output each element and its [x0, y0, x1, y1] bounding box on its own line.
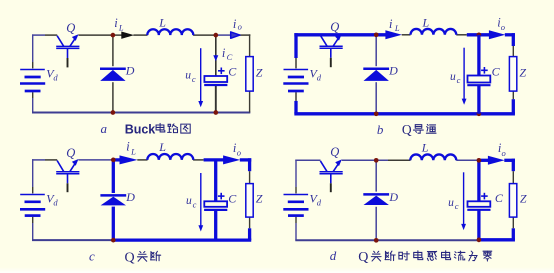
wire: c thick diode branch	[112, 158, 115, 193]
label uc	[186, 195, 197, 209]
node: a capacitor bottom junction	[213, 110, 218, 115]
svg-text:c: c	[457, 75, 461, 85]
svg-text:Z: Z	[520, 192, 527, 206]
label Vd	[46, 67, 58, 83]
wire: c thick right vertical bottom	[248, 228, 251, 240]
wire: c left vertical	[32, 159, 34, 187]
svg-text:a: a	[101, 121, 108, 136]
wire: c top-left segment	[32, 159, 45, 161]
battery Vd	[283, 70, 308, 92]
capacitor C	[467, 193, 490, 210]
svg-text:d: d	[53, 73, 58, 83]
svg-text:D: D	[125, 64, 135, 78]
wire: a arrow to inductor	[133, 34, 147, 36]
wire: b thick right vertical top	[512, 33, 515, 46]
current arrow io (thick blue)	[223, 155, 240, 164]
label io	[497, 16, 505, 33]
current arrow io (hollow)	[231, 32, 240, 38]
wire: d thick segment C junction to io	[477, 159, 488, 162]
wire: c thick capacitor branch	[214, 160, 217, 201]
label uc	[185, 70, 196, 84]
resistor Z (load)	[246, 184, 253, 218]
svg-text:L: L	[158, 15, 166, 29]
node: d C bottom junction	[477, 238, 482, 243]
caption: dian lu tu	[156, 123, 165, 132]
capacitor C	[204, 68, 227, 86]
wire: b battery stub top	[295, 58, 297, 68]
uc voltage arrow	[462, 48, 467, 105]
battery Vd	[20, 70, 45, 92]
wire: a inductor to C-junction	[193, 34, 216, 36]
wire: a diode branch	[112, 35, 114, 66]
wire: b iL arrow to inductor (thin)	[402, 34, 411, 36]
diode D	[100, 195, 126, 205]
wire: b io arrow to top-right corner (thick)	[505, 33, 515, 36]
svg-text:C: C	[228, 65, 237, 79]
svg-text:Z: Z	[256, 192, 263, 206]
svg-text:i: i	[222, 46, 226, 60]
wire: c Q to D-junction	[78, 159, 113, 161]
svg-text:o: o	[238, 22, 242, 32]
wire: b thick right vertical bottom	[512, 99, 515, 114]
svg-text:Q: Q	[330, 20, 339, 34]
transistor Q	[56, 159, 79, 192]
node: b capacitor bottom junction	[477, 111, 482, 116]
wire: a capacitor branch	[215, 35, 217, 76]
resistor Z (load)	[509, 57, 516, 92]
wire: a io arrow to top-right corner	[240, 34, 251, 36]
label io	[498, 141, 506, 158]
svg-text:d: d	[330, 248, 337, 263]
current arrow iL (thick blue)	[385, 30, 402, 39]
wire: b Z stub top	[512, 46, 514, 57]
svg-text:c: c	[455, 201, 459, 211]
wire: c thick right vertical top	[248, 158, 251, 171]
wire: b thick capacitor branch	[477, 35, 480, 76]
wire: d Z stub bottom	[512, 217, 514, 228]
diode D	[363, 69, 389, 81]
svg-text:i: i	[233, 17, 237, 31]
svg-text:d: d	[317, 73, 322, 83]
svg-text:Q: Q	[402, 122, 412, 137]
uc voltage arrow	[461, 172, 466, 230]
node: d diode top junction	[374, 158, 379, 163]
wire: b battery stub bottom	[295, 92, 297, 101]
svg-text:i: i	[389, 16, 393, 31]
caption: dao tong	[413, 125, 423, 134]
svg-text:c: c	[193, 199, 197, 209]
svg-text:d: d	[317, 198, 322, 208]
current arrow iL (thick blue)	[120, 155, 138, 164]
wire: b thick segment to C junction and io	[467, 33, 490, 36]
resistor Z (load)	[246, 57, 253, 92]
caption: guan duan shi dian gan dian liu wei ling	[371, 251, 381, 261]
wire: d Q to D junction	[342, 159, 388, 161]
node: b diode top junction	[374, 32, 379, 37]
node: a switch-diode junction	[111, 33, 116, 38]
wire: a top-left segment	[32, 34, 45, 36]
wire: d thick right vertical top	[512, 159, 515, 172]
svg-text:L: L	[158, 140, 166, 154]
wire: b thick left vertical bottom	[294, 101, 297, 114]
svg-text:Z: Z	[519, 66, 526, 80]
svg-text:L: L	[130, 146, 136, 156]
transistor Q	[320, 34, 343, 67]
resistor Z (load)	[509, 184, 516, 218]
wire: c thick top segment with iL arrow	[112, 158, 120, 161]
wire: c Z stub top	[249, 171, 251, 183]
current arrow iL (black)	[121, 32, 134, 39]
wire: c io arrow to top-right corner (thick)	[240, 158, 251, 161]
label iL	[114, 16, 124, 33]
svg-text:d: d	[53, 198, 58, 208]
current arrow io (thick blue)	[489, 30, 505, 39]
svg-text:Z: Z	[256, 66, 263, 80]
inductor L	[147, 154, 193, 160]
svg-text:D: D	[125, 190, 135, 204]
wire: a left vertical below battery	[32, 92, 34, 98]
inductor L	[410, 154, 456, 160]
diode D	[100, 69, 126, 81]
label iC	[222, 46, 233, 62]
wire: c left vertical below battery	[32, 217, 34, 223]
wire: a bottom rail	[32, 112, 250, 114]
uc voltage arrow	[198, 173, 203, 232]
svg-text:Q: Q	[125, 250, 135, 265]
caption: guan duan	[137, 251, 147, 261]
node: a diode bottom junction	[111, 110, 116, 115]
wire: a left vertical	[32, 34, 34, 62]
wire: d left vertical	[295, 160, 297, 187]
inductor L	[411, 29, 457, 35]
wire: b thick top rail	[294, 33, 385, 36]
svg-text:c: c	[192, 74, 196, 84]
node: c diode bottom junction	[111, 238, 116, 243]
inductor L	[147, 29, 193, 35]
node: d diode bottom junction	[374, 238, 379, 243]
label io	[233, 141, 241, 158]
wire: a C-junction to io arrow	[216, 34, 231, 36]
label iL	[126, 139, 136, 157]
wire: c inductor to thick (thin)	[193, 159, 204, 161]
svg-text:C: C	[492, 65, 501, 79]
svg-text:L: L	[118, 23, 124, 33]
wire: d thick bottom segment	[477, 238, 515, 241]
wire: d thick right vertical bottom	[512, 228, 515, 240]
wire: a Q to D-junction	[78, 34, 121, 36]
svg-text:i: i	[114, 16, 118, 30]
wire: b thick left vertical	[294, 33, 297, 58]
svg-text:L: L	[394, 23, 400, 33]
wire: d io arrow to top-right corner thick	[504, 159, 515, 162]
wire: c arrow to inductor (thin)	[137, 159, 147, 161]
wire: d top rail thin	[295, 159, 320, 161]
battery Vd	[283, 195, 308, 216]
svg-text:u: u	[185, 70, 191, 82]
label Vd	[310, 192, 322, 208]
current arrow iC	[213, 55, 218, 61]
wire: b thick bottom rail	[294, 112, 515, 115]
svg-text:D: D	[388, 64, 398, 78]
transistor Q	[320, 159, 343, 192]
wire: d left vertical below battery	[295, 217, 297, 223]
svg-text:u: u	[448, 197, 454, 209]
label uc	[450, 71, 461, 85]
svg-text:C: C	[495, 191, 504, 205]
wire: d bottom rail thin	[295, 239, 479, 241]
svg-text:o: o	[501, 22, 505, 32]
wire: b Z stub bottom	[512, 91, 514, 99]
svg-text:o: o	[237, 148, 241, 158]
wire: a right vertical (Z branch)	[249, 34, 251, 56]
node: b diode bottom junction	[374, 111, 379, 116]
uc voltage arrow	[198, 48, 203, 107]
svg-text:i: i	[126, 139, 130, 154]
node: d LC top junction	[477, 158, 482, 163]
svg-text:Buck: Buck	[125, 122, 156, 136]
node: a LC junction	[213, 33, 218, 38]
label iL	[389, 16, 400, 33]
wire: c thick bottom rail	[112, 238, 252, 241]
wire: c Z stub bottom	[249, 217, 251, 228]
svg-text:C: C	[227, 52, 233, 62]
svg-text:Q: Q	[358, 250, 368, 265]
node: c diode top junction	[111, 158, 116, 163]
label io	[233, 17, 242, 32]
label uc	[448, 197, 459, 211]
diode D	[363, 194, 389, 205]
current arrow io (thick blue)	[488, 156, 505, 165]
svg-text:c: c	[89, 248, 95, 263]
svg-text:Q: Q	[66, 21, 75, 35]
svg-text:Q: Q	[330, 145, 339, 159]
wire: b diode branch (thin)	[375, 35, 377, 66]
transistor Q	[56, 34, 79, 67]
label Vd	[310, 67, 322, 83]
node: b LC junction	[477, 32, 482, 37]
label Vd	[46, 192, 58, 208]
svg-text:L: L	[421, 140, 429, 154]
wire: c bottom rail thin part	[32, 239, 113, 241]
svg-text:o: o	[502, 148, 506, 158]
capacitor C	[204, 193, 227, 210]
svg-text:u: u	[186, 195, 192, 207]
svg-text:D: D	[388, 190, 398, 204]
svg-text:C: C	[228, 191, 237, 205]
wire: b inductor to thick (thin)	[456, 34, 467, 36]
capacitor C	[467, 67, 490, 85]
wire: d diode branch thin	[375, 160, 377, 191]
wire: c thick segment to C junction and io	[204, 158, 224, 161]
wire: d thick capacitor branch	[477, 160, 480, 201]
svg-text:Q: Q	[66, 146, 75, 160]
svg-text:u: u	[450, 71, 456, 83]
wire: d Z stub top	[512, 171, 514, 183]
battery Vd	[20, 195, 45, 216]
svg-text:b: b	[377, 122, 384, 137]
svg-text:L: L	[422, 15, 430, 29]
wire: d inductor to C junction (thin)	[456, 159, 479, 161]
